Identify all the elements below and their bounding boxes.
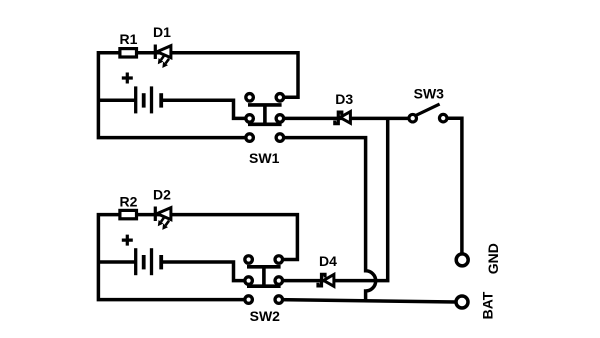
switch SW2 rotor [247,267,281,286]
resistor R2 [120,193,138,218]
battery BT1 [122,73,161,114]
svg-text:SW3: SW3 [414,86,445,102]
wire [98,98,136,102]
svg-text:BAT: BAT [480,291,496,319]
svg-text:GND: GND [485,243,501,274]
LED D2 [153,186,171,230]
svg-text:D1: D1 [153,24,171,40]
wire [443,118,462,256]
wire [160,262,249,281]
svg-text:D2: D2 [153,186,171,202]
wire [98,260,136,264]
switch SW1 [246,94,284,142]
svg-text:SW2: SW2 [250,308,281,324]
diode D3 [335,91,354,124]
svg-text:D3: D3 [335,91,353,107]
node BAT [456,291,496,319]
svg-text:R2: R2 [120,193,138,209]
wire [98,215,297,300]
battery BT2 [122,235,161,276]
switch SW3 [409,86,447,122]
wire [279,300,456,302]
wire [279,118,388,280]
svg-text:SW1: SW1 [249,150,280,166]
wire [160,100,250,118]
svg-text:D4: D4 [319,253,337,269]
wire [98,53,298,138]
wire [280,117,413,121]
diode D4 [318,253,337,286]
wire [280,138,376,301]
resistor R1 [120,31,138,57]
switch SW1 rotor [248,105,282,124]
node GND [456,243,501,274]
switch SW2 [245,256,283,304]
svg-text:R1: R1 [120,31,138,47]
LED D1 [153,24,171,68]
